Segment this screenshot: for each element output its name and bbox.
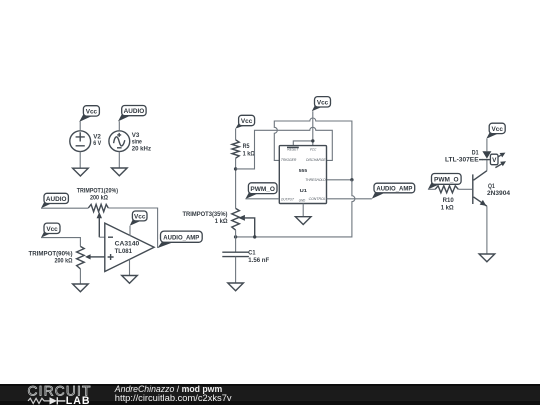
- wire threshold down to bottom rail: [236, 180, 355, 237]
- Vcc flag at R5: [235, 115, 254, 128]
- node trimpot3 wiper rail: [253, 235, 256, 238]
- resistor R10 1k: [435, 186, 458, 212]
- svg-text:200 kΩ: 200 kΩ: [90, 195, 108, 202]
- wire trimpot3 to C1: [235, 230, 237, 252]
- logo resistor-diode glyph: [28, 397, 65, 404]
- svg-text:Vcc: Vcc: [317, 99, 329, 106]
- LED D1 LTL-307EE: [445, 139, 506, 168]
- wire R5 junction to discharge loop: [236, 127, 333, 169]
- wire V2 bottom: [79, 152, 81, 169]
- wire trimpot2 bottom to ground: [79, 269, 81, 284]
- Vcc flag at trimpot2: [41, 223, 60, 238]
- svg-text:OUTPUT: OUTPUT: [281, 197, 294, 202]
- wire V3 bottom: [118, 152, 120, 168]
- svg-text:http://circuitlab.com/c2xks7v: http://circuitlab.com/c2xks7v: [115, 393, 232, 403]
- ground below C1: [228, 283, 244, 291]
- svg-text:2N3904: 2N3904: [487, 190, 511, 197]
- voltage source V3 sine: [109, 131, 151, 153]
- svg-text:Vcc: Vcc: [241, 118, 253, 125]
- svg-text:AUDIO: AUDIO: [46, 196, 67, 203]
- wire Q1 collector up to LED: [486, 160, 488, 171]
- svg-text:TRIMPOT1(20%): TRIMPOT1(20%): [77, 187, 118, 194]
- logo CIRCUIT: [28, 383, 92, 398]
- svg-text:TL081: TL081: [115, 248, 133, 255]
- ground below trimpot2: [73, 284, 89, 292]
- node threshold: [350, 178, 353, 181]
- footer url: [115, 393, 232, 403]
- svg-text:THRESHOLD: THRESHOLD: [305, 177, 325, 182]
- svg-text:TRIMPOT(90%): TRIMPOT(90%): [29, 250, 73, 257]
- svg-text:PWM_O: PWM_O: [250, 186, 275, 193]
- svg-text:555: 555: [299, 168, 308, 174]
- wire op-amp ground stem: [129, 259, 131, 275]
- ground below Q1: [479, 254, 495, 262]
- footer bar: [0, 384, 540, 405]
- wire AUDIO to trimpot1: [41, 207, 88, 209]
- AUDIO_AMP flag at op-amp output: [157, 231, 202, 248]
- svg-text:Vcc: Vcc: [492, 126, 504, 133]
- ground below op-amp: [122, 276, 138, 284]
- op-amp U CA3140 TL081: [105, 223, 154, 271]
- svg-text:1 kΩ: 1 kΩ: [441, 204, 454, 211]
- svg-text:TRIMPOT3(35%): TRIMPOT3(35%): [183, 211, 228, 218]
- AUDIO flag at trimpot1 input: [41, 193, 68, 208]
- wire V2 top: [79, 122, 81, 131]
- svg-text:C1: C1: [248, 250, 256, 257]
- svg-text:DISCHARGE: DISCHARGE: [306, 157, 326, 162]
- wire Vcc 555 down to vcc/reset node: [293, 111, 313, 145]
- svg-text:Vcc: Vcc: [86, 108, 98, 115]
- resistor R5 1k: [232, 140, 255, 158]
- wire 555 control to audio_amp: [327, 198, 372, 200]
- wire C1 to ground: [235, 257, 237, 283]
- wire trimpot1 wiper to op-amp inverting input: [99, 236, 105, 238]
- PWM_O flag at R10: [428, 174, 461, 190]
- svg-text:200 kΩ: 200 kΩ: [55, 258, 73, 265]
- svg-text:AUDIO_AMP: AUDIO_AMP: [163, 234, 200, 241]
- svg-text:AUDIO_AMP: AUDIO_AMP: [376, 185, 413, 192]
- trimpot TRIMPOT(90%) 200k: [29, 246, 105, 269]
- svg-text:V: V: [492, 157, 497, 164]
- ground below 555: [295, 217, 311, 225]
- wire V3 top: [118, 121, 120, 131]
- ground below V3: [112, 168, 128, 176]
- svg-text:6 V: 6 V: [93, 140, 102, 147]
- wire 555 gnd stem: [302, 204, 304, 217]
- svg-text:Vcc: Vcc: [46, 226, 58, 233]
- svg-text:AUDIO: AUDIO: [124, 108, 145, 115]
- svg-text:VCC: VCC: [310, 147, 317, 152]
- trimpot TRIMPOT1 20% 200k: [77, 187, 118, 237]
- svg-text:20 kHz: 20 kHz: [132, 145, 151, 152]
- wire R10 to Q1 base: [458, 188, 472, 190]
- node 555 vcc: [311, 139, 314, 142]
- svg-text:LTL-307EE: LTL-307EE: [445, 157, 479, 164]
- node trimpot3 bottom: [234, 235, 237, 238]
- svg-text:CA3140: CA3140: [115, 241, 140, 248]
- trimpot TRIMPOT3 35% 1k: [183, 208, 255, 237]
- svg-text:R10: R10: [443, 197, 455, 204]
- AUDIO_AMP flag at 555 control: [372, 183, 415, 199]
- svg-text:1 kΩ: 1 kΩ: [243, 151, 255, 158]
- voltage source V2: [70, 131, 102, 152]
- wire trigger loop: [274, 118, 352, 180]
- transistor Q1 2N3904: [473, 171, 511, 207]
- wire Q1 emitter down to ground: [486, 206, 488, 254]
- wire Vcc to trimpot2 top: [41, 238, 80, 247]
- footer title: [114, 384, 222, 394]
- capacitor C1 1.56nF: [222, 250, 269, 265]
- svg-text:GND: GND: [299, 197, 306, 202]
- svg-text:Vcc: Vcc: [134, 213, 146, 220]
- svg-text:1.56 nF: 1.56 nF: [248, 257, 269, 264]
- svg-text:R5: R5: [243, 143, 250, 150]
- ground below V2: [73, 168, 89, 176]
- wire PWM_O to R10: [428, 188, 435, 190]
- wire threshold: [327, 179, 352, 181]
- svg-text:U1: U1: [300, 188, 308, 194]
- wire feedback from trimpot1 right to op-amp output: [108, 208, 157, 248]
- logo LAB: [66, 395, 91, 405]
- svg-text:TRIGGER: TRIGGER: [281, 157, 296, 162]
- svg-text:1 kΩ: 1 kΩ: [215, 218, 228, 225]
- svg-text:PWM_O: PWM_O: [434, 177, 459, 184]
- PWM_O flag at 555 output: [245, 183, 277, 199]
- Vcc flag at LED: [486, 123, 505, 139]
- node below R5: [234, 167, 237, 170]
- wire R5 bottom to junction: [235, 158, 237, 208]
- AUDIO flag at V3: [118, 106, 146, 122]
- wire 555 output: [245, 198, 279, 200]
- svg-text:CONTROL: CONTROL: [309, 196, 326, 201]
- svg-text:D1: D1: [472, 149, 479, 156]
- svg-text:LAB: LAB: [66, 395, 91, 405]
- Vcc flag at 555: [312, 97, 331, 112]
- wire Vcc to R5: [235, 129, 237, 140]
- Vcc flag at V2: [79, 106, 99, 122]
- 555 timer U1: [279, 146, 326, 204]
- Vcc flag at op-amp: [130, 211, 147, 236]
